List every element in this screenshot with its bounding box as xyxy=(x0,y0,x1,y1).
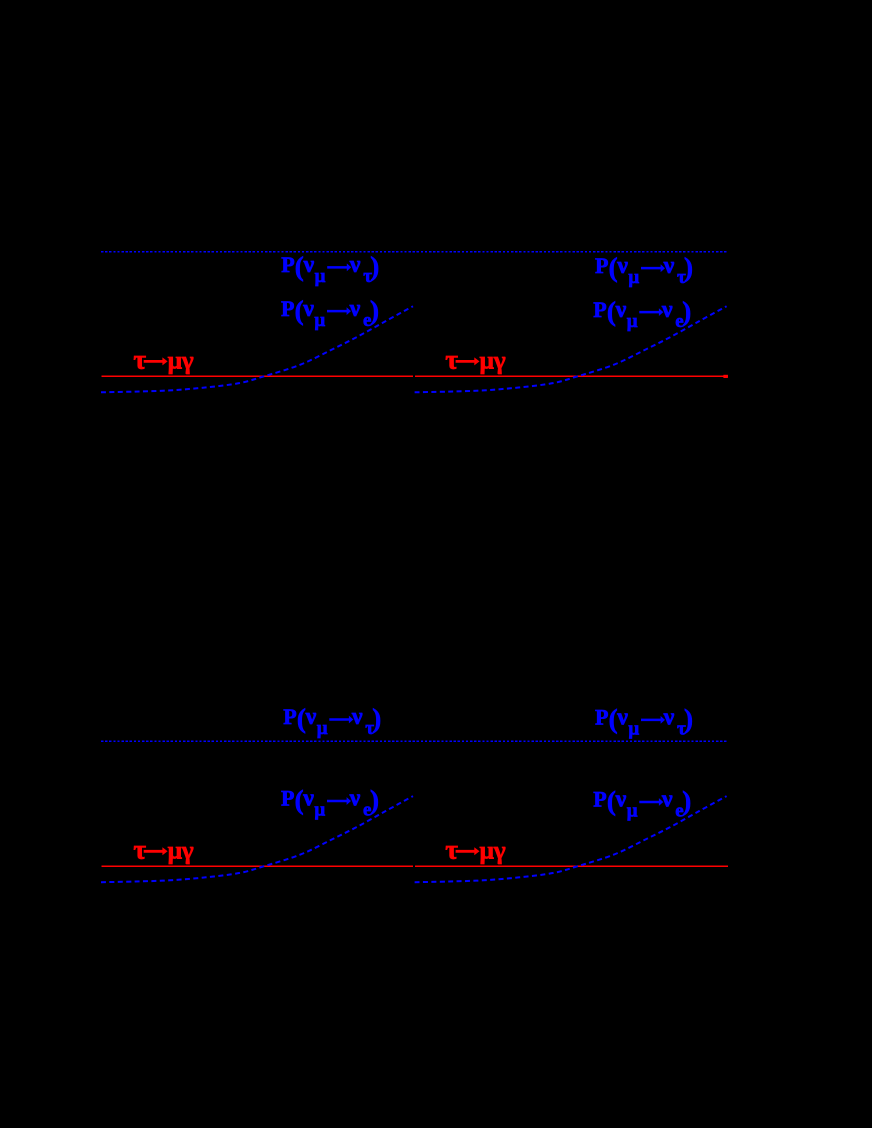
svg-text:μ: μ xyxy=(627,801,638,822)
svg-text:μ: μ xyxy=(317,718,328,739)
label P(nu_mu-&gt;nu_tau) xyxy=(283,704,381,740)
P(nu_mu->nu_e) curve (right panel) xyxy=(415,796,727,882)
svg-text:): ) xyxy=(682,786,691,816)
right line end marker xyxy=(723,375,728,378)
svg-text:μ: μ xyxy=(315,266,326,287)
svg-text:τ: τ xyxy=(133,343,146,374)
label tau-&gt;mu gamma xyxy=(445,833,505,864)
svg-text:): ) xyxy=(684,252,693,282)
svg-text:P: P xyxy=(593,297,606,322)
P(nu_mu-&gt;nu_tau) asymptote dashed line xyxy=(101,251,728,253)
tau->mu gamma limit line (left panel) xyxy=(102,375,413,377)
svg-text:ν: ν xyxy=(349,252,361,278)
label P(nu_mu-&gt;nu_e) xyxy=(593,296,691,332)
svg-text:): ) xyxy=(684,704,693,734)
svg-text:(: ( xyxy=(295,295,304,325)
svg-text:ν: ν xyxy=(305,704,317,730)
svg-text:ν: ν xyxy=(302,296,314,322)
svg-text:ν: ν xyxy=(661,297,673,323)
svg-text:ν: ν xyxy=(616,253,628,279)
svg-text:(: ( xyxy=(295,252,304,282)
svg-text:(: ( xyxy=(297,704,306,734)
svg-text:ν: ν xyxy=(349,296,361,322)
svg-text:(: ( xyxy=(609,704,618,734)
svg-text:P: P xyxy=(593,787,606,812)
svg-text:): ) xyxy=(370,252,379,282)
svg-text:ν: ν xyxy=(616,705,628,731)
svg-text:ν: ν xyxy=(615,787,627,813)
svg-text:ν: ν xyxy=(302,786,314,812)
svg-text:): ) xyxy=(372,704,381,734)
svg-text:γ: γ xyxy=(493,835,506,864)
svg-text:μ: μ xyxy=(168,835,183,864)
label P(nu_mu-&gt;nu_tau) xyxy=(595,704,693,740)
svg-text:γ: γ xyxy=(181,345,194,374)
svg-text:γ: γ xyxy=(181,835,194,864)
svg-text:μ: μ xyxy=(168,345,183,374)
svg-text:P: P xyxy=(281,252,294,277)
svg-text:μ: μ xyxy=(480,345,495,374)
svg-text:(: ( xyxy=(607,786,616,816)
label tau-&gt;mu gamma xyxy=(133,833,193,864)
P(nu_mu->nu_e) curve (left panel) xyxy=(101,796,413,882)
svg-text:τ: τ xyxy=(445,343,458,374)
svg-text:μ: μ xyxy=(628,267,639,288)
svg-text:ν: ν xyxy=(663,253,675,279)
svg-text:ν: ν xyxy=(663,705,675,731)
svg-text:ν: ν xyxy=(661,787,673,813)
P(nu_mu->nu_e) curve (left panel) xyxy=(101,306,413,392)
svg-text:): ) xyxy=(370,785,379,815)
svg-text:μ: μ xyxy=(627,311,638,332)
svg-text:(: ( xyxy=(609,252,618,282)
label tau-&gt;mu gamma xyxy=(445,343,505,374)
svg-text:P: P xyxy=(281,786,294,811)
svg-text:P: P xyxy=(281,296,294,321)
svg-text:γ: γ xyxy=(493,345,506,374)
tau->mu gamma limit line (left panel) xyxy=(102,865,413,867)
svg-text:(: ( xyxy=(607,296,616,326)
svg-text:ν: ν xyxy=(615,297,627,323)
P(nu_mu->nu_e) curve (right panel) xyxy=(415,306,727,392)
svg-text:μ: μ xyxy=(628,719,639,740)
svg-text:ν: ν xyxy=(303,252,315,278)
tau->mu gamma limit line (right panel) xyxy=(415,865,728,867)
svg-text:(: ( xyxy=(295,785,304,815)
label P(nu_mu-&gt;nu_e) xyxy=(593,786,691,822)
tau->mu gamma limit line (right panel) xyxy=(415,375,728,377)
svg-text:μ: μ xyxy=(314,310,325,331)
label P(nu_mu-&gt;nu_e) xyxy=(281,785,379,821)
label P(nu_mu-&gt;nu_e) xyxy=(281,295,379,331)
svg-text:ν: ν xyxy=(351,704,363,730)
P(nu_mu-&gt;nu_tau) asymptote dashed line xyxy=(101,740,728,742)
svg-text:τ: τ xyxy=(445,833,458,864)
svg-text:P: P xyxy=(283,704,296,729)
svg-text:): ) xyxy=(682,296,691,326)
svg-text:μ: μ xyxy=(480,835,495,864)
label tau-&gt;mu gamma xyxy=(133,343,193,374)
svg-text:P: P xyxy=(595,705,608,730)
label P(nu_mu-&gt;nu_tau) xyxy=(595,252,693,288)
svg-text:P: P xyxy=(595,253,608,278)
svg-text:τ: τ xyxy=(133,833,146,864)
svg-text:μ: μ xyxy=(314,800,325,821)
svg-text:ν: ν xyxy=(349,786,361,812)
svg-text:): ) xyxy=(370,295,379,325)
label P(nu_mu-&gt;nu_tau) xyxy=(281,252,379,288)
